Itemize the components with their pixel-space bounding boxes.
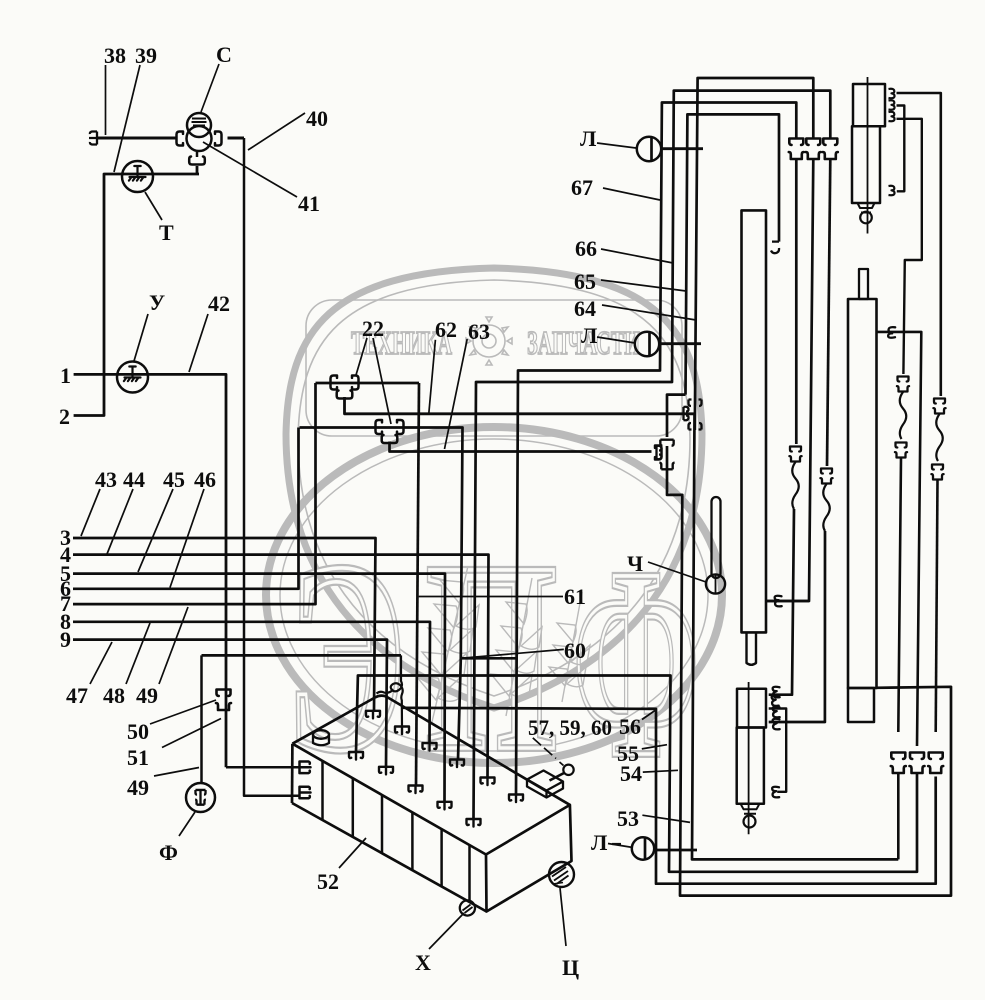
leader 22 right [373,338,391,424]
leader 54 [643,770,678,772]
svg-text:С: С [216,42,232,67]
leader 38 [105,65,107,135]
wire C to corner 40 [228,137,245,140]
flexible hose R column [936,414,943,461]
pump/generator C body [187,113,211,137]
coupling 22b right half [397,420,404,434]
claw terminal A1 [366,711,380,719]
watermark logo (gray) [266,268,722,813]
claw terminal A2 [395,727,409,735]
cylinder 66 neck [859,269,868,299]
leader У [134,314,148,361]
leader 51 [162,719,221,748]
battery front bottom edge [292,803,487,912]
svg-text:49: 49 [136,683,158,708]
lamp Л4 [632,837,654,859]
leader 52 [339,838,366,868]
leader 53 [642,815,690,822]
svg-text:Л: Л [591,830,608,855]
svg-text:40: 40 [306,106,328,131]
svg-text:49: 49 [127,775,149,800]
wire A column lower [769,509,794,695]
end fitting left of wire 38 [89,132,97,145]
T-coupling bottom 3 [928,753,943,774]
wire rect C right down to cyl1 line [766,159,813,601]
wire 6 (to line C) [73,428,299,589]
pump 67 nozzle [858,203,875,213]
hose coupling pair on P column [897,377,909,392]
wire cyl1 to C column with hook [766,600,809,603]
svg-text:44: 44 [123,467,145,492]
wire 5 [73,574,445,802]
svg-text:38: 38 [104,43,126,68]
pump 53 fitting hook middle [772,695,779,706]
svg-text:41: 41 [298,191,320,216]
claw terminal B3 [409,786,423,794]
coupling 22a left half [331,376,338,390]
leader 43 [81,489,100,536]
claw terminal A6 [509,795,523,803]
svg-text:50: 50 [127,719,149,744]
wire 7 (to line A) [73,383,316,604]
screw terminal Ц [549,862,574,887]
battery right end face [486,805,572,912]
hose coupling pair on A column [789,447,801,462]
svg-text:43: 43 [95,467,117,492]
coupling 22a right half [352,376,359,390]
wire from 22a down to line B [345,397,695,414]
ground symbol T [129,166,146,181]
leader T [145,192,162,220]
svg-text:53: 53 [617,806,639,831]
pump 53 second port loop [769,709,787,792]
T-coupling bottom 1 [891,753,906,774]
battery cell divider 2 [352,778,355,837]
leader 50 [150,700,216,724]
claw terminal B2 [379,767,393,775]
leader X [429,913,464,949]
coupling 50 [216,690,231,711]
lamp Л4 wire [654,849,697,852]
wire rect B right continuing down [827,159,830,466]
flexible hose A column [792,462,799,509]
coupling 22b cap [382,435,398,443]
battery cell divider 4 [411,812,414,870]
svg-text:51: 51 [127,745,149,770]
leader 57-59-60 [533,738,564,766]
svg-text:46: 46 [194,467,216,492]
svg-text:64: 64 [574,296,596,321]
leader 67 [603,188,660,200]
hose coupling pair on B column [820,469,832,484]
svg-text:48: 48 [103,683,125,708]
hook on port loop lower end [772,787,779,798]
wire rect A right continuing down [795,159,798,444]
leader 41 [203,142,297,197]
wire 8 [73,622,430,743]
coupling P3 fitting on line B [684,407,689,421]
fitting br3 on pump 67 [889,112,895,121]
svg-text:2: 2 [59,404,70,429]
coupling P4 top hook [660,440,673,446]
leader 45 [138,489,173,572]
leader 39 [114,65,140,172]
wire 1 (to У) [74,374,226,767]
cylinder 61 rod [747,632,757,664]
wire top feed (38) [97,137,176,140]
coupling P3 upper hook [689,400,702,407]
wire rect C top [695,78,814,430]
pump 53 nozzle [741,804,760,814]
coupling 22b left half [376,420,383,434]
pump C right fitting [215,132,222,146]
coupling P3 lower hook [689,423,702,430]
claw terminal B4 [438,802,452,810]
T-coupling on rect B right [823,139,838,160]
leader 63 [445,339,468,449]
wire br3 chain [897,119,922,374]
dash after Л4 [612,843,621,845]
terminal circle 57 [563,765,573,775]
claw terminal B5 [467,819,481,827]
battery connector Ε upper [300,762,311,774]
leader 60 [461,649,564,658]
leader 64 [602,305,696,320]
hook on cyl3 side wire [888,327,895,338]
lamp Л1 [637,137,661,161]
wire T branch [74,166,199,416]
line C (coupling 22b line) [300,428,519,760]
wire W2: battery claw to rect A [516,103,796,795]
hose cap under pump C [189,157,205,165]
coupling symbol in Ф [195,790,206,805]
line D end fitting [655,446,662,460]
svg-text:52: 52 [317,869,339,894]
wire 4 [73,555,489,778]
wire rect D top [686,114,780,394]
svg-text:1: 1 [60,363,71,388]
pump 53 body [737,728,764,804]
battery cell divider 5 [440,829,443,886]
svg-text:67: 67 [571,175,593,200]
wire 42 to battery fitting 49 [226,766,299,769]
svg-text:9: 9 [60,627,71,652]
leader 40 [248,113,305,150]
lamp Л2 [635,332,659,356]
coupling P4 bottom hook [659,463,674,470]
hose coupling pair lower P column [895,443,907,458]
battery connector Ε lower [300,787,311,799]
leader 47 [90,642,112,684]
wire Ф horizontal [202,654,402,657]
svg-text:Ф: Ф [159,840,178,865]
svg-text:57, 59, 60: 57, 59, 60 [528,715,612,740]
pump component 67 (top right) body [853,84,885,126]
ground T circle [122,161,153,192]
wire battery junction to frame (56) [402,708,936,884]
svg-text:65: 65 [574,269,596,294]
claw terminal A3 [423,743,437,751]
fitting br1 on pump 67 [889,89,895,98]
leader 65 [601,280,686,291]
wire line B vertical through P3 down to bottom frame [692,414,898,860]
svg-text:63: 63 [468,319,490,344]
pump C bottom stub [196,151,199,158]
battery left front edge [291,744,294,803]
leader Ч [648,562,706,582]
line A (coupling 22a line) [316,382,420,385]
wire br2 short loop [897,106,905,192]
leader 61 [419,596,563,598]
wire R column to bottom T [936,480,938,732]
svg-text:39: 39 [135,43,157,68]
cylinder 66 bottom box [848,688,874,722]
leader 55 [642,745,667,749]
battery cell divider 1 [321,761,324,820]
hook end of rect D wire [771,242,779,254]
battery 52 outline top face [292,696,570,805]
leader 42 [189,314,208,372]
screw terminal X [460,900,475,915]
lamp Л1 wire [661,147,703,150]
leader 22 left [356,338,367,375]
wire P column down to bottom T [898,458,901,859]
wire Ф vertical to ground [200,655,203,783]
ground У circle [117,362,148,393]
leader Ф [179,812,195,836]
pigtail on wire Ф drop [377,655,403,726]
hook on B column end [773,719,780,730]
leader 46 [170,489,204,588]
pump 67 center line [867,77,869,234]
svg-text:47: 47 [66,683,88,708]
cylinder 66 body [848,299,877,688]
claw terminal A4 [450,760,464,768]
leader Л4 [608,844,633,848]
leader 66 [601,249,673,263]
leader Л2 [597,337,635,343]
hook on C column end [775,596,782,607]
fitting br2 on pump 67 [889,100,895,109]
wire B column lower [769,531,825,722]
hydraulic cylinder 61 (left tall) [742,210,767,632]
T-coupling on rect A right [789,139,804,160]
hose coupling pair lower on R column [931,465,943,480]
ground Ф circle [186,783,215,812]
terminal block on battery [527,771,563,798]
svg-text:Ц: Ц [562,955,579,980]
svg-text:42: 42 [208,291,230,316]
battery vent cap [313,735,329,746]
wire from rect D corner to coupling Ч-line [667,395,686,437]
flexible hose B column [823,484,830,531]
leader 44 [107,489,133,554]
leader 62 [429,340,436,413]
wire br1 right and down (R column) [897,93,941,396]
hook on port loop upper [773,707,780,718]
svg-text:Т: Т [159,220,174,245]
claw terminal B1 [349,752,363,760]
svg-text:54: 54 [620,761,642,786]
coupling 22a cap [337,391,353,399]
wire 9 [73,640,387,767]
hose coupling pair on R column [933,399,945,414]
wire: long vertical from 40-corner down to battery fitting 49 [244,138,299,796]
leader 49a [159,607,188,684]
T-coupling bottom 2 [910,753,925,774]
wire cyl3 side to Q column [877,332,922,746]
stem to terminal circle [550,773,565,781]
svg-text:У: У [149,290,165,315]
claw terminal A5 [481,778,495,786]
leader Ц [560,888,566,946]
battery front top edge [292,744,486,855]
coupling P4 left fitting (end of line D) [657,446,662,460]
leader 48 [126,623,150,684]
flexible hose P column [900,392,907,439]
svg-text:Х: Х [415,950,431,975]
battery cell divider 3 [381,795,384,853]
hook on A column end (faces pump 53 top) [773,687,780,698]
svg-text:60: 60 [564,638,586,663]
svg-text:Л: Л [581,323,598,348]
pump C left fitting [177,132,184,146]
wire from 22b down to line D [390,442,652,452]
svg-text:22: 22 [362,316,384,341]
svg-text:66: 66 [575,236,597,261]
pump 53 top box [737,689,766,728]
leader Л1 [597,143,636,148]
svg-text:61: 61 [564,584,586,609]
hook at br2 loop end [889,186,895,195]
battery cell divider 6 [468,845,471,902]
wire 3 [73,538,376,711]
wire E battery B1 up and right [356,676,917,872]
svg-text:Л: Л [580,126,597,151]
svg-text:62: 62 [435,317,457,342]
pump 53 center line [748,682,750,834]
svg-text:56: 56 [619,714,641,739]
leader 49b [154,768,199,777]
lamp Л2 wire [659,342,701,345]
wire W1: battery claw to rect B [474,91,831,819]
svg-text:Ч: Ч [627,551,643,576]
ground symbol У [124,367,141,382]
T-coupling on rect C right [806,139,821,160]
svg-text:45: 45 [163,467,185,492]
leader C [201,64,219,112]
wire line A drop to claw [416,383,419,786]
item Ч (rod link) [712,497,721,578]
leader 56 [642,711,655,720]
wire through P4 down and jog right [667,446,951,896]
